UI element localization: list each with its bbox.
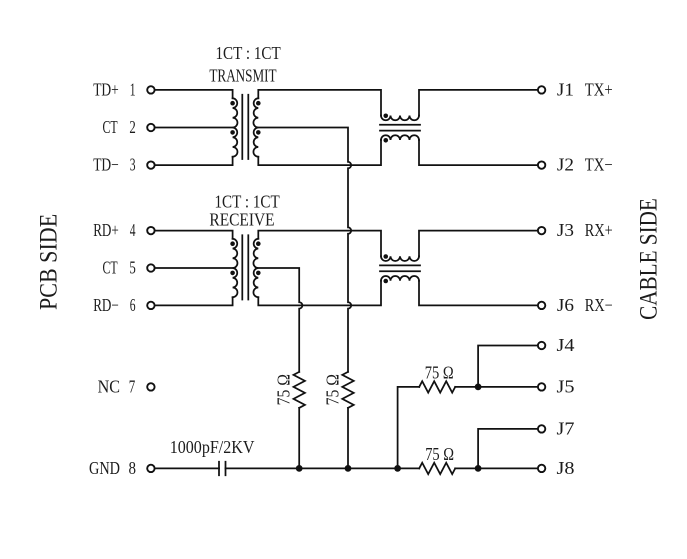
pin J3 terminal [538, 227, 545, 234]
transformer T1 secondary dot upper [256, 101, 261, 106]
svg-text:1CT : 1CT: 1CT : 1CT [215, 191, 280, 211]
choke L2 bottom winding [381, 276, 419, 281]
pin 8 GND label [89, 458, 136, 478]
pin 7 NC label [98, 377, 136, 397]
capacitor C1 plates [219, 462, 226, 476]
wire choke L2 bottom to J6 [419, 281, 537, 306]
wire T1 secondary top to choke L1 [258, 90, 381, 116]
pin J3 RX+ label [557, 220, 613, 240]
transformer T1 primary dot lower [230, 130, 235, 135]
svg-text:6: 6 [130, 295, 136, 315]
choke L1 bottom winding [381, 135, 419, 140]
choke L1 top winding [381, 116, 419, 121]
wire T2 secondary center tap to R1 (with hop) [258, 268, 302, 372]
transformer T1 primary winding [233, 98, 238, 156]
transformer T2 primary dot upper [230, 241, 235, 246]
wire R4 to J8 [455, 467, 537, 469]
svg-text:RECEIVE: RECEIVE [209, 210, 274, 230]
GND rail junction at J5 branch [394, 465, 401, 472]
resistor R4 zigzag [419, 463, 455, 474]
pin J5 terminal [538, 383, 545, 390]
svg-text:1CT : 1CT: 1CT : 1CT [216, 43, 281, 63]
wire T2 secondary bottom to choke L2 [258, 281, 381, 306]
svg-text:J1: J1 [557, 80, 574, 100]
pin 4 RD+ label [93, 220, 136, 240]
svg-text:NC: NC [98, 377, 120, 397]
svg-text:J8: J8 [557, 458, 575, 478]
svg-text:CABLE SIDE: CABLE SIDE [633, 198, 662, 320]
svg-text:2: 2 [129, 117, 135, 137]
wire R2 bottom to GND node [347, 408, 349, 469]
pin 6 RD- label [93, 295, 136, 315]
svg-text:RD+: RD+ [93, 220, 119, 240]
svg-text:J2: J2 [557, 155, 574, 175]
wire R1 bottom to GND node [298, 408, 300, 469]
transformer T1 secondary winding [253, 98, 258, 156]
choke L2 top winding [381, 256, 419, 261]
wire T1 secondary center tap to R2 (with hops over rows) [258, 128, 351, 372]
svg-text:75 Ω: 75 Ω [425, 444, 454, 464]
svg-text:RX−: RX− [585, 295, 613, 315]
wire GND node up to R3 (J5 branch riser) [398, 387, 420, 469]
wire pin3 to T1 primary bottom [155, 157, 232, 165]
wire pin2 to T1 primary center tap [155, 127, 232, 129]
transformer T2 secondary winding [253, 239, 258, 297]
svg-text:75 Ω: 75 Ω [425, 362, 454, 382]
pin 2 CT label [103, 117, 136, 137]
svg-text:TX+: TX+ [585, 80, 613, 100]
choke L1 bottom winding dot [383, 138, 388, 143]
wire choke L2 top to J3 [419, 231, 537, 257]
pin J2 terminal [538, 161, 545, 168]
pin J6 RX- label [557, 295, 613, 315]
svg-text:CT: CT [103, 117, 118, 137]
pin 6 terminal [147, 302, 154, 309]
choke L2 top winding dot [383, 254, 388, 259]
pin J4 terminal [538, 342, 545, 349]
svg-text:RD−: RD− [93, 295, 119, 315]
pin 1 terminal [147, 86, 154, 93]
choke L2 bottom winding dot [383, 279, 388, 284]
svg-text:TD+: TD+ [93, 80, 119, 100]
transformer T2 secondary dot upper [256, 241, 261, 246]
junction J4/J5 branch [475, 384, 482, 391]
transformer T2 core [242, 235, 248, 299]
pin 3 terminal [147, 161, 154, 168]
pin 8 terminal [147, 465, 154, 472]
svg-text:J6: J6 [557, 295, 574, 315]
pin J2 TX- label [557, 155, 613, 175]
svg-text:J7: J7 [557, 419, 575, 439]
pin 2 terminal [147, 124, 154, 131]
resistor R3 zigzag [419, 381, 455, 392]
pin J1 terminal [538, 86, 545, 93]
pin J6 terminal [538, 302, 545, 309]
pin 3 TD- label [93, 155, 136, 175]
svg-text:75 Ω: 75 Ω [322, 374, 342, 405]
svg-text:1000pF/2KV: 1000pF/2KV [170, 437, 255, 457]
transformer T2 secondary dot lower [256, 271, 261, 276]
pin J7 terminal [538, 425, 545, 432]
wire pin6 to T2 primary bottom [155, 297, 232, 305]
svg-text:1: 1 [130, 80, 136, 100]
svg-text:TD−: TD− [93, 155, 119, 175]
wire pin8 to capacitor C1 [155, 467, 219, 469]
svg-text:GND: GND [89, 458, 120, 478]
wire R3 to J5 [455, 386, 537, 388]
resistor R2 zigzag [342, 372, 353, 408]
svg-text:J3: J3 [557, 220, 574, 240]
transformer T1 primary dot upper [230, 101, 235, 106]
wire junction up to J7 [478, 429, 537, 469]
pin J1 TX+ label [557, 80, 613, 100]
svg-text:RX+: RX+ [585, 220, 613, 240]
wire choke L1 bottom to J2 [419, 140, 537, 165]
svg-text:4: 4 [130, 220, 136, 240]
pin J8 terminal [538, 465, 545, 472]
svg-text:7: 7 [129, 377, 136, 397]
wire pin1 to T1 primary top [155, 90, 232, 98]
transformer T2 primary winding [233, 239, 238, 297]
pin 1 TD+ label [93, 80, 135, 100]
wire C1 to GND rail [226, 467, 420, 469]
wire pin5 to T2 primary center tap [155, 267, 232, 269]
choke L1 top winding dot [383, 114, 388, 119]
pin 5 terminal [147, 264, 154, 271]
transformer T2 primary dot lower [230, 271, 235, 276]
pin 5 CT label [103, 258, 136, 278]
GND rail junction at R2 [345, 465, 352, 472]
svg-text:J4: J4 [557, 335, 575, 355]
svg-text:TRANSMIT: TRANSMIT [209, 66, 276, 86]
wire T2 secondary top to choke L2 [258, 231, 381, 257]
svg-text:CT: CT [103, 258, 118, 278]
svg-text:PCB SIDE: PCB SIDE [33, 214, 62, 310]
svg-text:J5: J5 [557, 377, 575, 397]
svg-text:3: 3 [130, 155, 136, 175]
choke L2 core [380, 265, 420, 271]
choke L1 core [380, 125, 420, 131]
wire pin4 to T2 primary top [155, 231, 232, 239]
resistor R1 zigzag [294, 372, 305, 408]
wire choke L1 top to J1 [419, 90, 537, 116]
junction J7/J8 branch [475, 465, 482, 472]
svg-text:75 Ω: 75 Ω [273, 374, 293, 405]
GND rail junction at R1 [296, 465, 303, 472]
pin 7 terminal (no connection) [147, 383, 154, 390]
pin 4 terminal [147, 227, 154, 234]
wire junction up to J4 [478, 346, 537, 387]
svg-text:5: 5 [129, 258, 136, 278]
wire T1 secondary bottom to choke L1 [258, 140, 381, 165]
svg-text:TX−: TX− [585, 155, 613, 175]
transformer T1 core [242, 95, 248, 159]
transformer T1 secondary dot lower [256, 130, 261, 135]
svg-text:8: 8 [129, 458, 137, 478]
